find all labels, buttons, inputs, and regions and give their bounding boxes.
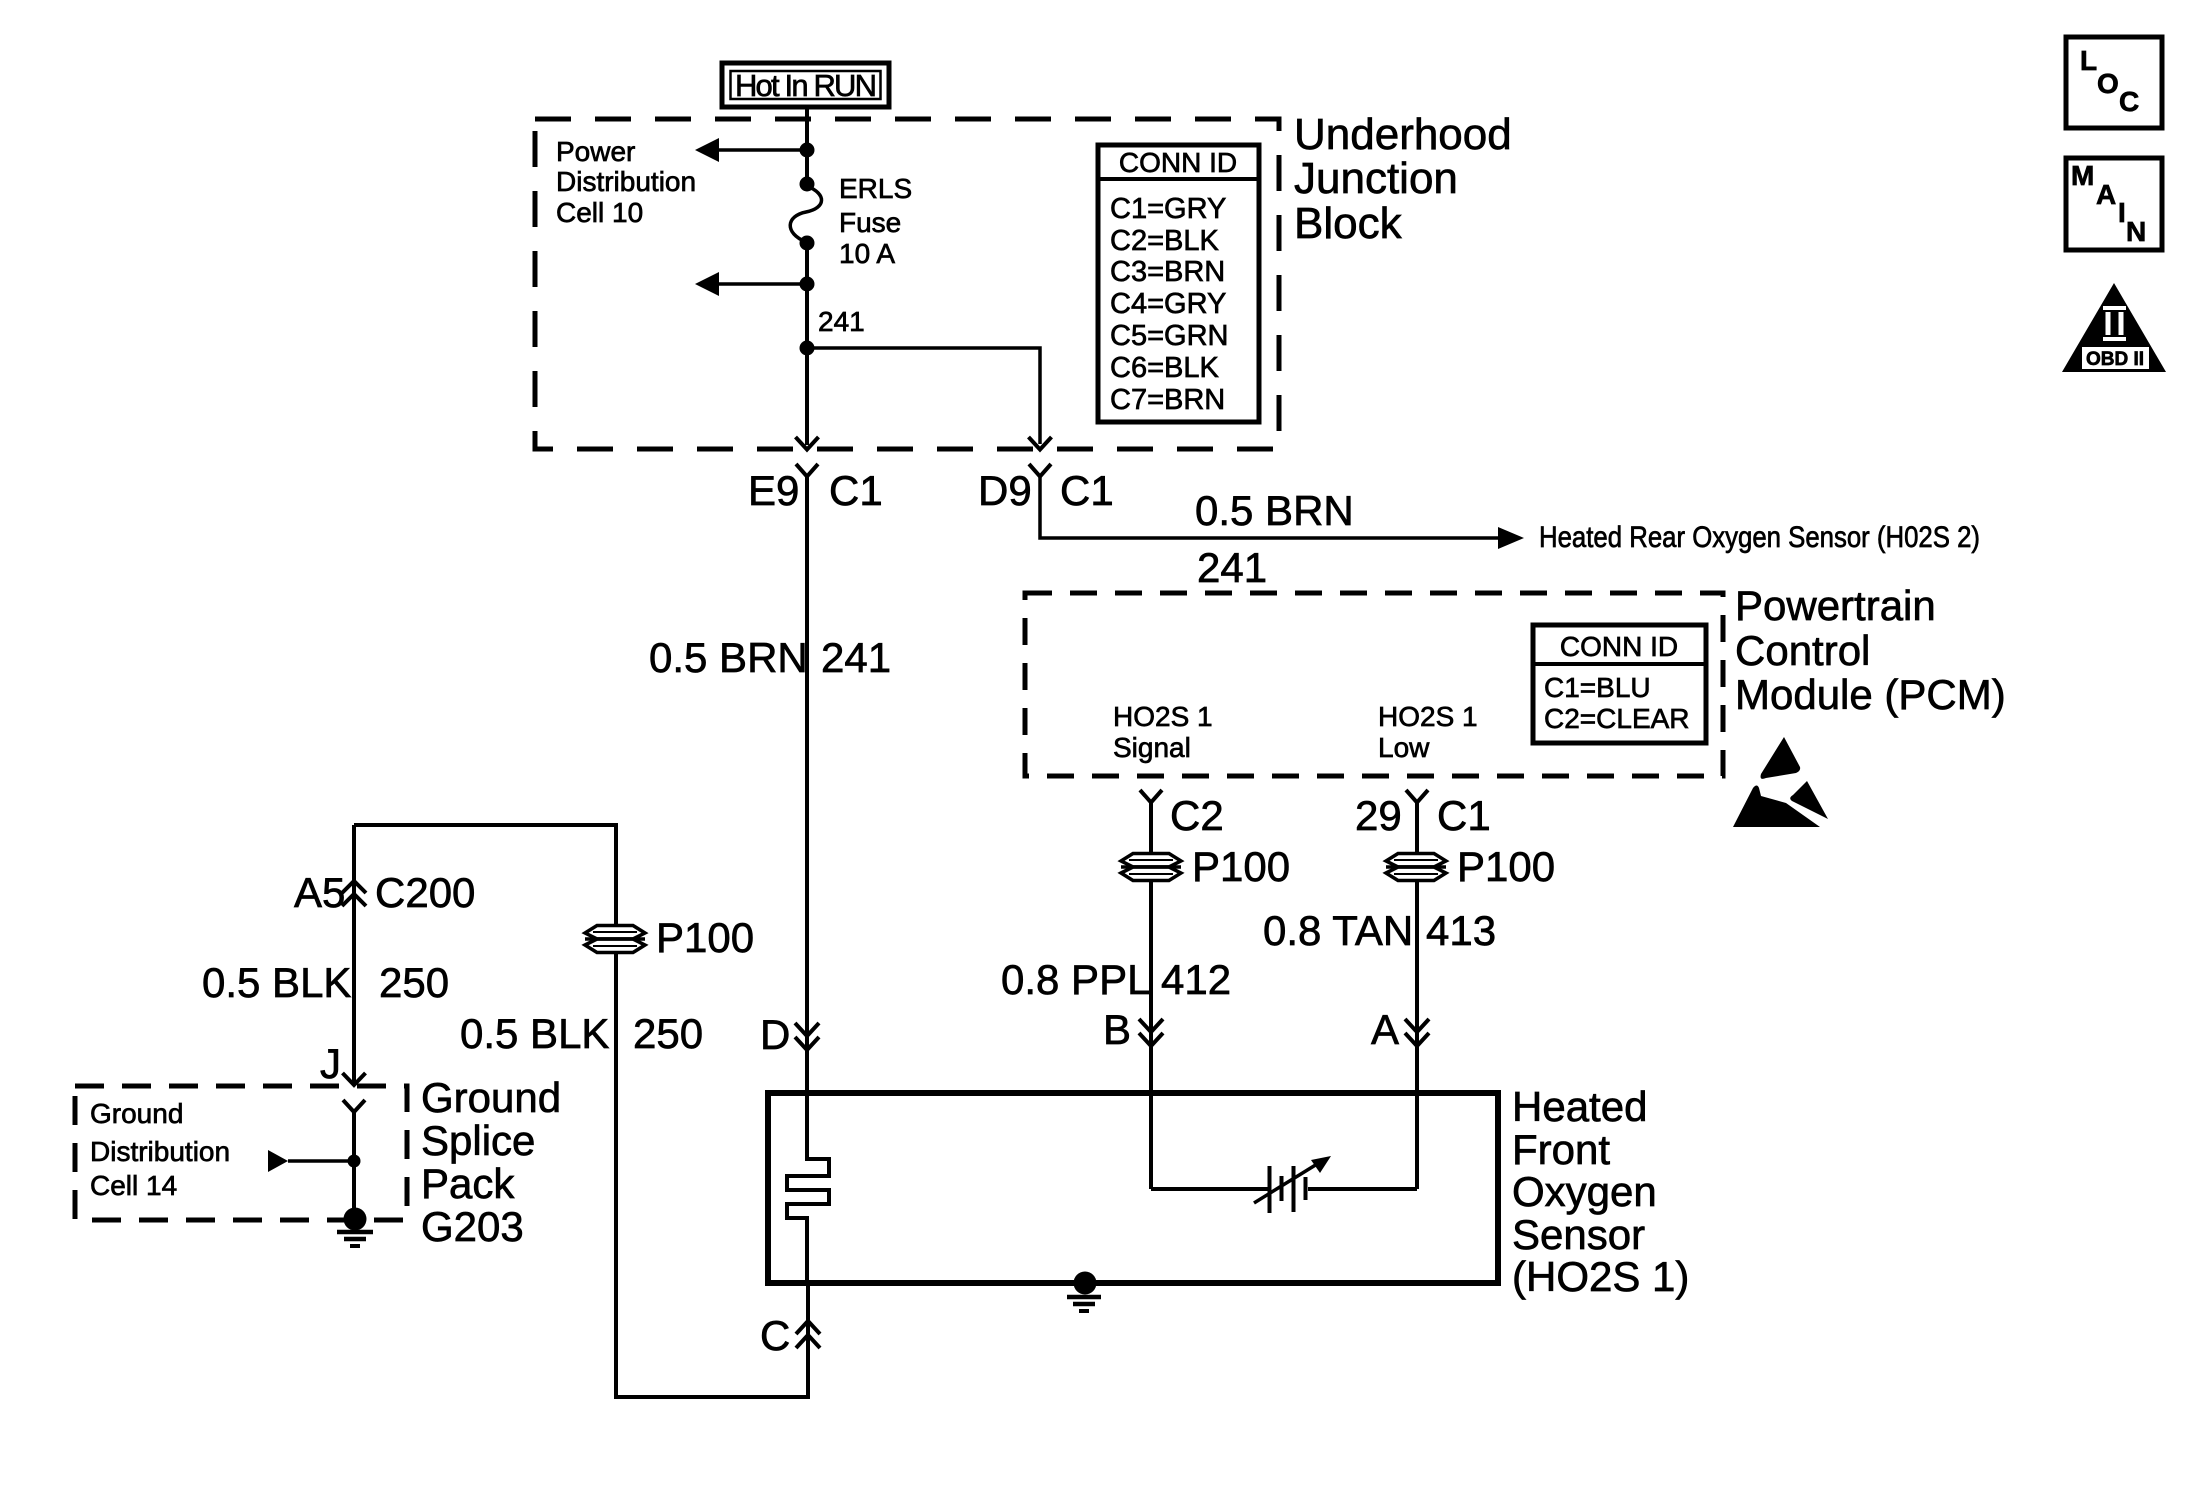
svg-text:C1: C1 bbox=[1060, 467, 1114, 514]
svg-text:Powertrain: Powertrain bbox=[1735, 582, 1936, 629]
svg-text:G203: G203 bbox=[421, 1203, 524, 1250]
node: junction dot for 241 branch bbox=[800, 341, 815, 356]
wire D9 to heated rear oxygen sensor with arrow bbox=[1040, 477, 1524, 549]
wire from Hot In RUN into junction block bbox=[805, 107, 809, 182]
connector A5 C200 chevrons bbox=[294, 869, 475, 916]
svg-text:Junction: Junction bbox=[1294, 154, 1458, 203]
arrow feed to splice pack bbox=[268, 1150, 354, 1172]
node: junction dot lower feed bbox=[800, 277, 815, 292]
svg-text:Control: Control bbox=[1735, 627, 1870, 674]
svg-text:OBD II: OBD II bbox=[2086, 349, 2144, 370]
connector D9 C1 (Y symbol) bbox=[978, 464, 1114, 514]
svg-text:C3=BRN: C3=BRN bbox=[1110, 256, 1225, 288]
svg-text:Ground: Ground bbox=[90, 1098, 183, 1129]
wire C2 to sensor pin B bbox=[1149, 803, 1153, 1189]
svg-text:Heated: Heated bbox=[1512, 1083, 1647, 1130]
svg-text:Fuse: Fuse bbox=[839, 207, 901, 238]
svg-text:CONN ID: CONN ID bbox=[1119, 147, 1237, 178]
svg-text:250: 250 bbox=[633, 1010, 703, 1057]
label Powertrain Control Module (PCM) bbox=[1735, 582, 2006, 718]
svg-text:Underhood: Underhood bbox=[1294, 110, 1512, 159]
pin B chevrons bbox=[1103, 1006, 1163, 1053]
pin J label and arrow bbox=[320, 1040, 366, 1087]
pass-through grommet P100 (ground wire) bbox=[585, 914, 754, 961]
svg-text:C1: C1 bbox=[829, 467, 883, 514]
svg-text:C200: C200 bbox=[375, 869, 475, 916]
svg-text:D9: D9 bbox=[978, 467, 1032, 514]
connector 29 C1 (Y symbol at PCM) bbox=[1355, 790, 1491, 839]
node: junction dot at splice bbox=[348, 1155, 361, 1168]
label Heated Front Oxygen Sensor (HO2S 1) bbox=[1512, 1083, 1689, 1300]
pin C chevrons bbox=[760, 1312, 820, 1359]
connector table CONN ID (PCM) bbox=[1533, 625, 1706, 743]
svg-text:0.5 BRN: 0.5 BRN bbox=[1195, 487, 1354, 534]
svg-text:10 A: 10 A bbox=[839, 238, 895, 269]
svg-text:Oxygen: Oxygen bbox=[1512, 1168, 1657, 1215]
pass-through grommet P100 (low wire) bbox=[1386, 843, 1555, 890]
svg-text:C1=GRY: C1=GRY bbox=[1110, 193, 1226, 225]
svg-text:0.5 BRN: 0.5 BRN bbox=[649, 634, 808, 681]
svg-text:C7=BRN: C7=BRN bbox=[1110, 384, 1225, 416]
arrow exit D9 (open V at box edge) bbox=[1029, 437, 1052, 450]
svg-text:C1=BLU: C1=BLU bbox=[1544, 672, 1651, 703]
sensor element wiring bbox=[1151, 1187, 1268, 1191]
heated front oxygen sensor box bbox=[768, 1093, 1498, 1283]
pin D chevrons bbox=[760, 1011, 819, 1058]
wire label 0.5 BLK 250 (middle) bbox=[460, 1010, 703, 1057]
heater element bbox=[787, 1159, 829, 1285]
svg-text:Sensor: Sensor bbox=[1512, 1211, 1645, 1258]
svg-text:241: 241 bbox=[821, 634, 891, 681]
label Ground Distribution Cell 14 bbox=[90, 1098, 230, 1201]
fuse ERLS 10 A bbox=[790, 177, 821, 251]
svg-text:Front: Front bbox=[1512, 1126, 1610, 1173]
svg-text:C2=CLEAR: C2=CLEAR bbox=[1544, 703, 1690, 734]
wire arrow to power distribution (lower) bbox=[695, 272, 807, 296]
svg-text:A: A bbox=[2096, 179, 2116, 210]
connector E9 C1 (Y symbol) bbox=[748, 464, 883, 514]
svg-text:Power: Power bbox=[556, 136, 635, 167]
svg-text:CONN ID: CONN ID bbox=[1560, 631, 1678, 662]
svg-text:E9: E9 bbox=[748, 467, 799, 514]
svg-text:ERLS: ERLS bbox=[839, 173, 912, 204]
connector C2 (Y symbol at PCM) bbox=[1140, 790, 1224, 839]
svg-text:241: 241 bbox=[818, 306, 865, 337]
svg-text:250: 250 bbox=[379, 959, 449, 1006]
svg-text:C: C bbox=[760, 1312, 790, 1359]
svg-text:Low: Low bbox=[1378, 732, 1430, 763]
svg-text:413: 413 bbox=[1426, 907, 1496, 954]
svg-text:Hot In RUN: Hot In RUN bbox=[735, 68, 877, 103]
legend box MAIN bbox=[2066, 158, 2162, 250]
svg-text:A: A bbox=[1371, 1006, 1399, 1053]
svg-text:Block: Block bbox=[1294, 199, 1403, 248]
wire fuse to exits bbox=[805, 243, 809, 445]
svg-text:Module (PCM): Module (PCM) bbox=[1735, 671, 2006, 718]
svg-text:0.5 BLK: 0.5 BLK bbox=[460, 1010, 609, 1057]
svg-text:J: J bbox=[320, 1040, 341, 1087]
svg-text:P100: P100 bbox=[1192, 843, 1290, 890]
svg-text:C4=GRY: C4=GRY bbox=[1110, 288, 1226, 320]
pin label HO2S 1 Low bbox=[1378, 701, 1478, 763]
label Power Distribution Cell 10 bbox=[556, 136, 696, 228]
svg-text:I: I bbox=[2118, 197, 2126, 228]
wire label 0.8 TAN 413 bbox=[1263, 907, 1496, 954]
arrow exit E9 (open V at box edge) bbox=[796, 437, 819, 450]
svg-text:C2=BLK: C2=BLK bbox=[1110, 225, 1219, 257]
pass-through grommet P100 (signal wire) bbox=[1121, 843, 1290, 890]
ground node inside sensor bbox=[1067, 1272, 1101, 1312]
ground distribution dashed box bbox=[75, 1086, 407, 1220]
svg-text:Ground: Ground bbox=[421, 1074, 561, 1121]
svg-text:A5: A5 bbox=[294, 869, 345, 916]
svg-text:C6=BLK: C6=BLK bbox=[1110, 352, 1219, 384]
legend box LOC bbox=[2066, 37, 2162, 128]
wire sensor C to ground loop bbox=[354, 825, 808, 1397]
node: junction dot at fuse top feed bbox=[800, 143, 815, 158]
svg-text:241: 241 bbox=[1197, 544, 1267, 591]
underhood junction block dashed box bbox=[535, 119, 1279, 449]
svg-text:Cell 14: Cell 14 bbox=[90, 1170, 177, 1201]
svg-text:O: O bbox=[2097, 68, 2119, 99]
legend OBD II triangle bbox=[2062, 283, 2166, 372]
svg-text:P100: P100 bbox=[656, 914, 754, 961]
svg-text:C: C bbox=[2119, 86, 2139, 117]
svg-text:Signal: Signal bbox=[1113, 732, 1191, 763]
connector table CONN ID (junction block) bbox=[1098, 145, 1259, 422]
svg-text:M: M bbox=[2071, 160, 2094, 191]
svg-text:0.5 BLK: 0.5 BLK bbox=[202, 959, 351, 1006]
svg-text:Cell 10: Cell 10 bbox=[556, 197, 643, 228]
svg-text:Distribution: Distribution bbox=[556, 166, 696, 197]
power source box "Hot In RUN" bbox=[722, 63, 889, 107]
label ERLS Fuse 10 A bbox=[839, 173, 912, 269]
wire A5 to ground splice bbox=[352, 825, 356, 1084]
svg-text:Splice: Splice bbox=[421, 1117, 535, 1164]
wire Y to ground bbox=[352, 1110, 356, 1219]
svg-text:412: 412 bbox=[1161, 956, 1231, 1003]
svg-text:N: N bbox=[2126, 216, 2146, 247]
svg-text:C5=GRN: C5=GRN bbox=[1110, 320, 1228, 352]
svg-text:L: L bbox=[2080, 45, 2097, 76]
wire E9 down to sensor bbox=[805, 477, 809, 1161]
variable sensor cell symbol bbox=[1254, 1156, 1331, 1213]
svg-text:Distribution: Distribution bbox=[90, 1136, 230, 1167]
connector Y below J bbox=[343, 1100, 365, 1112]
svg-text:Pack: Pack bbox=[421, 1160, 515, 1207]
svg-text:HO2S 1: HO2S 1 bbox=[1378, 701, 1478, 732]
ESD sensitivity symbol bbox=[1733, 737, 1828, 827]
svg-text:C1: C1 bbox=[1437, 792, 1491, 839]
wire arrow to power distribution (upper) bbox=[695, 138, 807, 162]
label Underhood Junction Block bbox=[1294, 110, 1512, 248]
wire branch to D9 exit bbox=[807, 348, 1040, 444]
svg-text:B: B bbox=[1103, 1006, 1131, 1053]
svg-text:D: D bbox=[760, 1011, 790, 1058]
svg-text:(HO2S 1): (HO2S 1) bbox=[1512, 1253, 1689, 1300]
label Ground Splice Pack G203 bbox=[421, 1074, 561, 1250]
powertrain control module dashed box bbox=[1025, 593, 1723, 776]
svg-text:HO2S 1: HO2S 1 bbox=[1113, 701, 1213, 732]
svg-text:Heated Rear Oxygen Sensor (H02: Heated Rear Oxygen Sensor (H02S 2) bbox=[1539, 521, 1980, 554]
pin label HO2S 1 Signal bbox=[1113, 701, 1213, 763]
svg-text:0.8 TAN: 0.8 TAN bbox=[1263, 907, 1413, 954]
wire label 0.8 PPL 412 bbox=[1001, 956, 1231, 1003]
svg-text:C2: C2 bbox=[1170, 792, 1224, 839]
svg-text:0.8 PPL: 0.8 PPL bbox=[1001, 956, 1150, 1003]
wire C1 to sensor pin A bbox=[1415, 803, 1419, 1189]
svg-text:29: 29 bbox=[1355, 792, 1402, 839]
pin A chevrons bbox=[1371, 1006, 1429, 1053]
wire label 0.5 BLK 250 (left) bbox=[202, 959, 449, 1006]
svg-text:P100: P100 bbox=[1457, 843, 1555, 890]
ground G203 symbol bbox=[337, 1208, 373, 1247]
